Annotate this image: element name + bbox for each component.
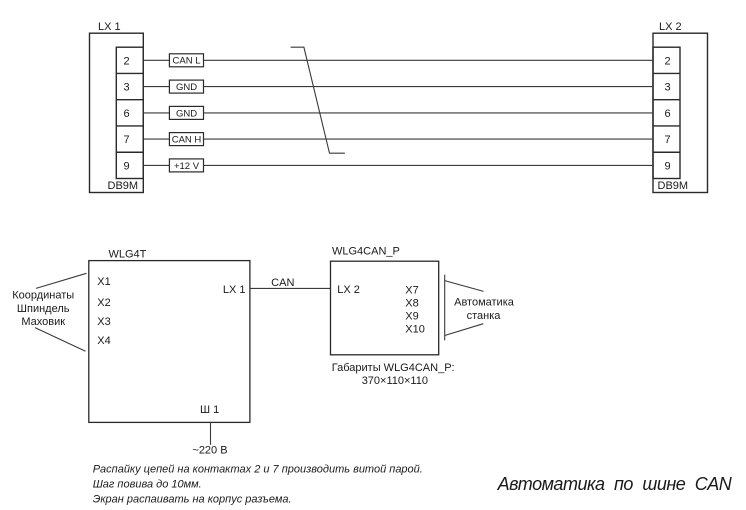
svg-text:WLG4CAN_P: WLG4CAN_P <box>332 245 400 257</box>
wire CAN L left stub <box>143 59 169 61</box>
svg-text:Автоматика: Автоматика <box>454 297 515 309</box>
svg-text:Шаг повива до 10мм.: Шаг повива до 10мм. <box>93 478 202 490</box>
svg-text:Координаты: Координаты <box>12 289 74 301</box>
svg-text:X9: X9 <box>405 310 418 322</box>
svg-text:DB9M: DB9M <box>108 180 139 192</box>
svg-text:2: 2 <box>123 55 129 67</box>
wire GND2 main run <box>204 112 654 114</box>
svg-text:X3: X3 <box>97 316 110 328</box>
net label +12 V <box>169 159 203 172</box>
svg-text:X4: X4 <box>97 335 110 347</box>
device box WLG4CAN_P <box>331 261 439 355</box>
connector LX2 outer body <box>653 33 708 192</box>
node label Автоматика станка <box>454 297 515 322</box>
svg-text:Ш 1: Ш 1 <box>200 404 219 416</box>
svg-text:CAN: CAN <box>271 277 294 289</box>
svg-text:Маховик: Маховик <box>21 316 65 328</box>
fan bar outputs <box>444 275 446 341</box>
svg-text:9: 9 <box>664 160 670 172</box>
fan line upper (inputs) <box>36 273 87 288</box>
svg-text:Экран распаивать на корпус раз: Экран распаивать на корпус разъема. <box>93 494 292 506</box>
fan line lower (inputs) <box>35 328 86 352</box>
svg-text:Шпиндель: Шпиндель <box>17 303 70 315</box>
wire CAN H main run <box>204 138 654 140</box>
wire +12V left stub <box>143 164 169 166</box>
connector LX1 outer body <box>90 33 144 192</box>
svg-text:6: 6 <box>664 108 670 120</box>
net label GND (pin 6) <box>169 106 203 119</box>
svg-text:Автоматика по шине CAN: Автоматика по шине CAN <box>497 474 733 494</box>
svg-text:~220 В: ~220 В <box>192 445 227 457</box>
svg-text:CAN L: CAN L <box>173 56 201 67</box>
svg-text:X2: X2 <box>97 297 110 309</box>
svg-text:LX 2: LX 2 <box>659 21 682 33</box>
svg-text:7: 7 <box>664 134 670 146</box>
fan line output lower <box>445 324 484 336</box>
svg-text:Распайку цепей на контактах 2: Распайку цепей на контактах 2 и 7 произв… <box>93 464 423 476</box>
wire GND1 main run <box>204 86 654 88</box>
cable bundle marker <box>291 47 345 153</box>
fan line output upper <box>445 281 484 292</box>
device box WLG4T <box>89 261 250 423</box>
svg-text:станка: станка <box>467 310 502 322</box>
wire CAN H left stub <box>143 138 169 140</box>
wire +12V main run <box>204 164 654 166</box>
svg-text:3: 3 <box>664 82 670 94</box>
wire mains <box>210 422 212 444</box>
wire CAN bus <box>250 287 331 289</box>
svg-text:7: 7 <box>123 134 129 146</box>
note wiring instructions <box>93 464 423 506</box>
svg-text:2: 2 <box>664 55 670 67</box>
svg-text:CAN H: CAN H <box>172 135 202 146</box>
wire GND1 left stub <box>143 86 169 88</box>
connector LX2 pin column <box>653 47 680 178</box>
svg-text:9: 9 <box>123 160 129 172</box>
svg-text:GND: GND <box>176 82 197 93</box>
connector LX1 pin column <box>116 47 143 178</box>
svg-text:GND: GND <box>176 108 197 119</box>
wire CAN L main run <box>204 59 654 61</box>
svg-text:370×110×110: 370×110×110 <box>362 375 428 387</box>
svg-text:Габариты WLG4CAN_P:: Габариты WLG4CAN_P: <box>332 362 455 374</box>
svg-text:X10: X10 <box>405 324 425 336</box>
svg-text:+12 V: +12 V <box>174 161 200 172</box>
svg-text:DB9M: DB9M <box>658 180 689 192</box>
svg-text:X1: X1 <box>97 276 110 288</box>
svg-text:3: 3 <box>123 82 129 94</box>
svg-text:WLG4T: WLG4T <box>109 249 147 261</box>
svg-text:LX 1: LX 1 <box>98 21 121 33</box>
net label CAN L <box>169 54 203 67</box>
net label CAN H <box>169 133 203 146</box>
svg-text:6: 6 <box>123 108 129 120</box>
svg-text:LX 2: LX 2 <box>337 284 360 296</box>
node label Координаты/Шпиндель/Маховик <box>12 289 74 328</box>
svg-text:X8: X8 <box>405 297 418 309</box>
svg-text:X7: X7 <box>405 284 418 296</box>
note Габариты WLG4CAN_P <box>332 362 455 387</box>
svg-text:LX 1: LX 1 <box>223 284 246 296</box>
wire GND2 left stub <box>143 112 169 114</box>
net label GND (pin 3) <box>169 80 203 93</box>
